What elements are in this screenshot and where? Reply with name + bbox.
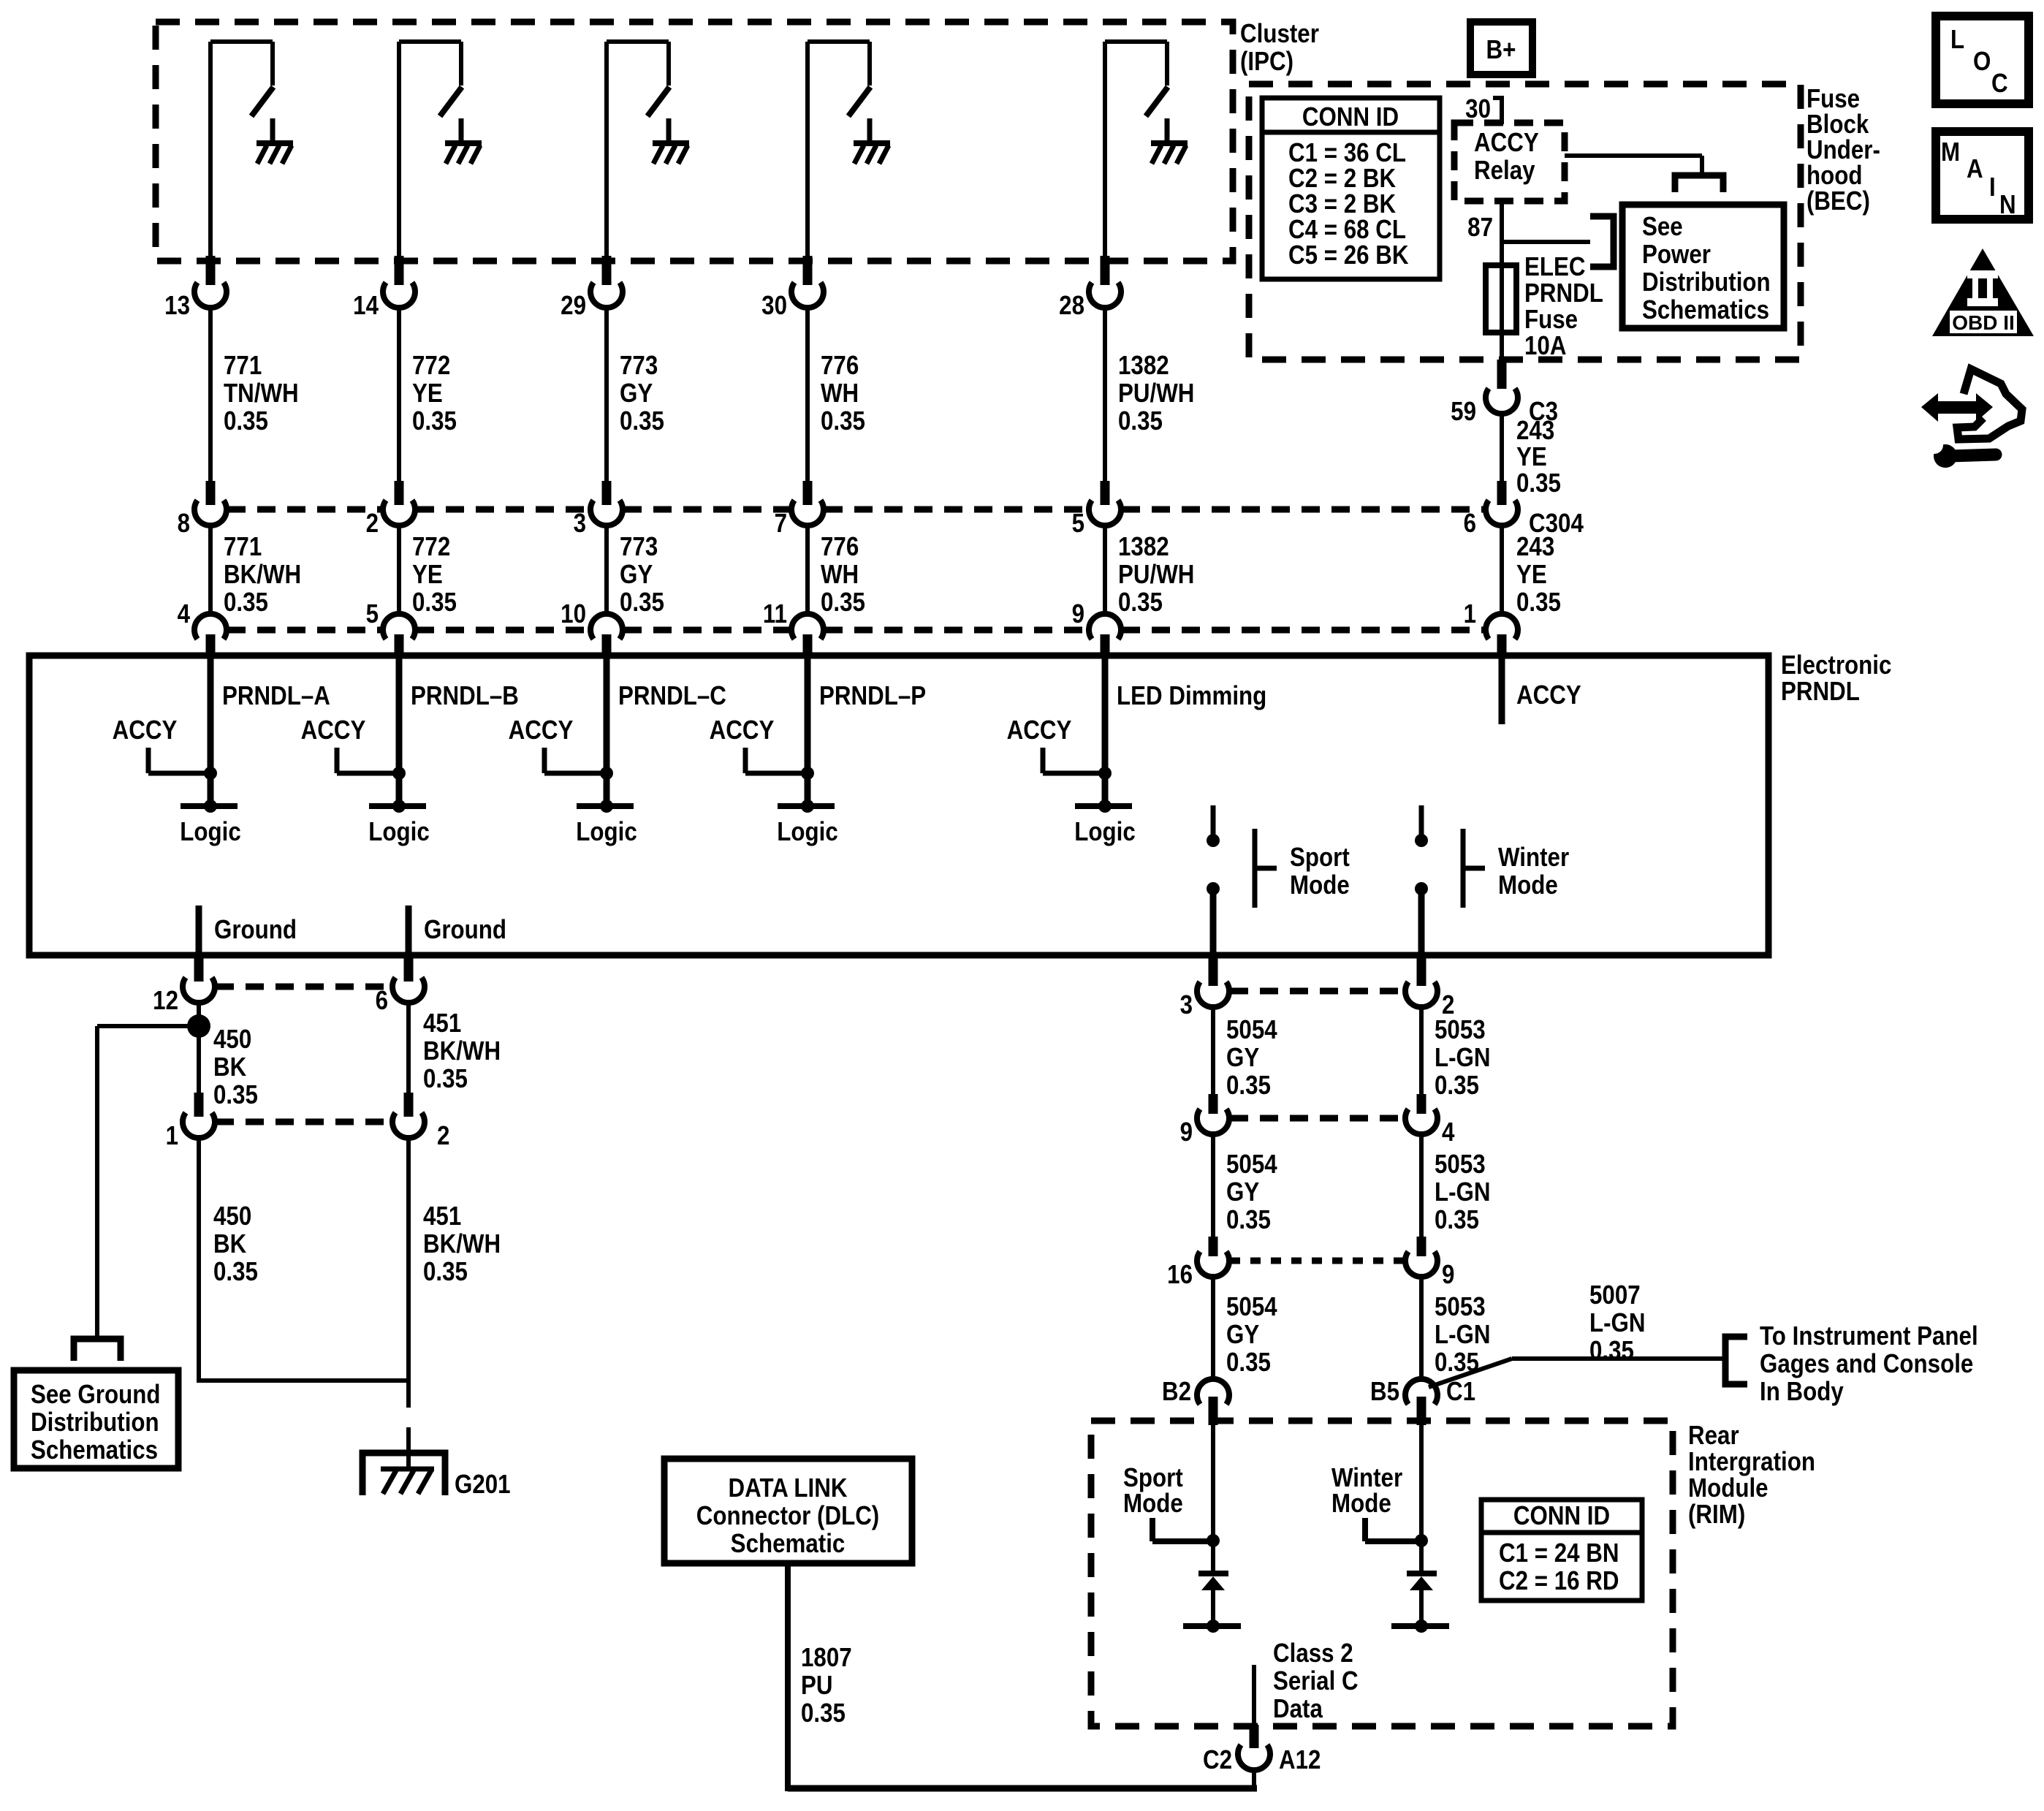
data link connector (DLC) schematic box — [664, 1459, 912, 1563]
svg-text:0.35: 0.35 — [224, 588, 268, 618]
connector pin 12 (ground) — [153, 957, 215, 1016]
input wire PRNDL–A inside module — [208, 656, 214, 806]
ground symbol for switch S4 — [854, 118, 890, 164]
svg-text:14: 14 — [353, 291, 379, 321]
input wire PRNDL–P inside module — [805, 656, 811, 806]
svg-text:N: N — [1999, 190, 2016, 220]
junction dot PRNDL–P/ACCY — [801, 767, 814, 780]
wire from ACCY relay to power distribution — [1565, 156, 1702, 175]
dashed connector line pins 1/2 — [216, 1119, 392, 1125]
svg-text:0.35: 0.35 — [821, 588, 865, 618]
svg-text:Serial C: Serial C — [1273, 1666, 1359, 1696]
svg-text:13: 13 — [164, 291, 190, 321]
icon LOC — [1936, 16, 2029, 104]
wire 5053 L-GN seg3 — [1419, 1274, 1424, 1380]
junction dot PRNDL–A/ACCY — [204, 767, 217, 780]
internal ACCY pull-up for PRNDL–C — [509, 715, 607, 773]
label LED Dimming — [1117, 681, 1266, 711]
svg-text:PU/WH: PU/WH — [1118, 560, 1194, 590]
svg-text:9: 9 — [1180, 1117, 1193, 1147]
fuse block underhood (BEC) dashed outline — [1249, 84, 1801, 360]
harness bracket to instrument panel — [1725, 1337, 1747, 1384]
svg-text:C2: C2 — [1203, 1745, 1232, 1775]
svg-text:C1 = 24 BN: C1 = 24 BN — [1499, 1538, 1619, 1568]
svg-text:0.35: 0.35 — [224, 406, 268, 436]
ground output wire 2 inside module — [409, 905, 506, 957]
connector pin 3 (sport) — [1180, 957, 1229, 1020]
svg-text:5053: 5053 — [1435, 1292, 1486, 1322]
svg-text:30: 30 — [761, 291, 787, 321]
svg-text:Mode: Mode — [1290, 870, 1350, 900]
wire 776 WH between connector rows — [805, 525, 810, 615]
winter mode switch contacts — [1415, 805, 1428, 957]
svg-text:Schematics: Schematics — [1642, 295, 1769, 325]
harness bracket into See Power box (left) — [1590, 216, 1614, 267]
svg-text:0.35: 0.35 — [1226, 1205, 1271, 1235]
svg-text:GY: GY — [620, 560, 653, 590]
svg-text:Cluster: Cluster — [1240, 19, 1319, 49]
svg-text:0.35: 0.35 — [1589, 1336, 1634, 1366]
svg-text:10A: 10A — [1524, 331, 1566, 361]
dashed connector line pins 9/4 — [1230, 1115, 1405, 1122]
connector pin 28 of IPC — [1059, 256, 1121, 321]
wire 451 BK/WH from pin 6 — [406, 1000, 411, 1095]
connector pin 9 (winter row3) — [1405, 1237, 1454, 1290]
svg-text:BK: BK — [213, 1052, 247, 1082]
svg-text:87: 87 — [1467, 213, 1493, 243]
switch S3 (PRNDL-C sense) in cluster — [607, 42, 669, 265]
svg-text:Logic: Logic — [1074, 817, 1135, 847]
svg-text:A12: A12 — [1279, 1745, 1321, 1775]
svg-text:30: 30 — [1465, 94, 1491, 124]
relay pin 30 lead — [1465, 94, 1502, 124]
svg-text:PU: PU — [801, 1671, 833, 1701]
connector pin 3 (in-line connector top) — [574, 481, 623, 539]
svg-text:ACCY: ACCY — [710, 715, 775, 745]
label wire 5007 L-GN 0.35 — [1589, 1280, 1646, 1366]
connector pin 9 (sport row2) — [1180, 1094, 1229, 1147]
svg-text:Winter: Winter — [1498, 843, 1569, 873]
label wire 5053 L-GN 0.35 (second) — [1435, 1150, 1491, 1235]
wire 5054 GY seg3 — [1211, 1274, 1215, 1380]
svg-text:0.35: 0.35 — [1435, 1205, 1479, 1235]
ground symbol for switch S3 — [653, 118, 689, 164]
svg-text:Mode: Mode — [1331, 1489, 1391, 1519]
wire B2 to diode — [1211, 1425, 1215, 1571]
svg-text:ACCY: ACCY — [1007, 715, 1072, 745]
instrument cluster (IPC) module dashed outline — [156, 22, 1233, 261]
svg-text:PRNDL–A: PRNDL–A — [222, 681, 330, 711]
svg-text:773: 773 — [620, 351, 658, 381]
label PRNDL–C — [618, 681, 726, 711]
wire 5053 L-GN seg1 — [1419, 1004, 1424, 1096]
svg-text:Data: Data — [1273, 1694, 1323, 1724]
connector pin B2 of RIM — [1162, 1377, 1229, 1425]
B+ power symbol — [1470, 22, 1532, 75]
svg-text:Schematics: Schematics — [31, 1435, 158, 1465]
label wire 1382 PU/WH 0.35 — [1118, 351, 1194, 436]
label wire 450 BK 0.35 (second) — [213, 1201, 258, 1287]
wire 771 BK/WH between connector rows — [208, 525, 213, 615]
label PRNDL–P — [819, 681, 926, 711]
label wire 771 BK/WH 0.35 (second) — [224, 532, 301, 618]
svg-text:6: 6 — [1464, 509, 1476, 539]
svg-text:O: O — [1973, 47, 1991, 77]
connector pin 7 (in-line connector top) — [775, 481, 824, 539]
label Fuse Block Underhood (BEC) — [1806, 84, 1880, 216]
svg-text:4: 4 — [1442, 1117, 1455, 1147]
svg-text:PRNDL–B: PRNDL–B — [411, 681, 519, 711]
svg-text:5007: 5007 — [1589, 1280, 1641, 1310]
ground lead at G201 — [406, 1427, 411, 1470]
wire 773 GY between connector rows — [604, 525, 609, 615]
svg-text:772: 772 — [412, 532, 450, 562]
svg-text:0.35: 0.35 — [423, 1064, 468, 1094]
connector pin 8 (in-line connector top) — [178, 481, 227, 539]
internal ACCY pull-up for LED Dimming — [1007, 715, 1105, 773]
svg-text:243: 243 — [1516, 416, 1554, 446]
switch S1 (PRNDL-A sense) in cluster — [210, 42, 273, 265]
connector pin 6 C304 — [1464, 481, 1584, 539]
svg-text:Ground: Ground — [214, 915, 297, 945]
svg-text:12: 12 — [153, 986, 178, 1016]
svg-text:5054: 5054 — [1226, 1292, 1277, 1322]
wire 243 YE from C3 to C304 — [1500, 411, 1504, 482]
svg-text:5: 5 — [366, 599, 379, 629]
svg-text:G201: G201 — [455, 1470, 511, 1500]
junction dot LED Dimming/ACCY — [1098, 767, 1112, 780]
svg-text:6: 6 — [376, 986, 388, 1016]
svg-text:2: 2 — [437, 1121, 449, 1151]
diode D1 (sport) — [1183, 1573, 1241, 1626]
svg-text:GY: GY — [1226, 1320, 1259, 1350]
svg-text:ACCY: ACCY — [509, 715, 574, 745]
connector pin 10 (in-line connector bottom) — [561, 599, 623, 657]
see power distribution schematics box — [1622, 205, 1784, 328]
svg-text:5054: 5054 — [1226, 1015, 1277, 1045]
svg-text:DATA LINK: DATA LINK — [729, 1473, 848, 1503]
svg-text:243: 243 — [1516, 532, 1554, 562]
svg-text:1: 1 — [166, 1121, 178, 1151]
junction dot winter input — [1415, 1534, 1428, 1547]
label wire 451 BK/WH 0.35 — [423, 1009, 501, 1094]
svg-text:0.35: 0.35 — [1516, 468, 1561, 498]
connector pin 2 (in-line connector top) — [366, 481, 415, 539]
svg-text:GY: GY — [620, 379, 653, 409]
svg-text:ACCY: ACCY — [113, 715, 178, 745]
svg-text:BK: BK — [213, 1229, 247, 1259]
label PRNDL–A — [222, 681, 330, 711]
wire 5054 GY seg2 — [1211, 1131, 1215, 1239]
sport mode switch actuator — [1255, 829, 1350, 908]
logic input symbol for PRNDL–B — [368, 800, 429, 847]
junction dot PRNDL–C/ACCY — [600, 767, 613, 780]
svg-text:Logic: Logic — [180, 817, 240, 847]
svg-text:C2 = 16 RD: C2 = 16 RD — [1499, 1566, 1619, 1596]
svg-text:Connector (DLC): Connector (DLC) — [696, 1501, 879, 1531]
ACCY input wire inside module — [1502, 656, 1581, 724]
svg-text:See Ground: See Ground — [31, 1380, 160, 1410]
svg-text:451: 451 — [423, 1009, 461, 1039]
class 2 serial data wire in RIM — [1254, 1639, 1359, 1725]
svg-text:To Instrument Panel: To Instrument Panel — [1760, 1321, 1978, 1351]
svg-text:771: 771 — [224, 351, 262, 381]
svg-text:5: 5 — [1072, 509, 1084, 539]
svg-text:BK/WH: BK/WH — [423, 1229, 501, 1259]
logic input symbol for PRNDL–A — [180, 800, 240, 847]
sport mode input label in RIM — [1123, 1463, 1213, 1541]
relay pin 87 lead and junction — [1467, 201, 1590, 265]
internal ACCY pull-up for PRNDL–A — [113, 715, 210, 773]
connector pin 5 (in-line connector bottom) — [366, 599, 415, 657]
svg-text:Power: Power — [1642, 240, 1711, 270]
connector pin 9 (in-line connector bottom) — [1072, 599, 1121, 657]
svg-text:L-GN: L-GN — [1435, 1320, 1491, 1350]
wire 450 BK from pin 12 — [197, 1000, 201, 1095]
svg-text:8: 8 — [178, 509, 190, 539]
connector pin 1 (ACCY into PRNDL) — [1464, 599, 1518, 657]
svg-text:776: 776 — [821, 351, 859, 381]
svg-text:WH: WH — [821, 379, 859, 409]
in-line connector dashed line (top row) — [227, 506, 1485, 513]
label wire 776 WH 0.35 — [821, 351, 865, 436]
svg-text:(IPC): (IPC) — [1240, 47, 1293, 77]
connector pin 5 (in-line connector top) — [1072, 481, 1121, 539]
switch S2 (PRNDL-B sense) in cluster — [399, 42, 462, 265]
ground G201 — [362, 1453, 511, 1500]
switch S5 (LED dimming sense) in cluster — [1105, 42, 1168, 265]
svg-text:0.35: 0.35 — [801, 1698, 846, 1728]
ground symbol for switch S5 — [1151, 118, 1188, 164]
svg-text:TN/WH: TN/WH — [224, 379, 299, 409]
svg-text:YE: YE — [412, 560, 443, 590]
svg-text:Logic: Logic — [777, 817, 837, 847]
ground output wire 1 inside module — [199, 905, 297, 957]
svg-text:C5 = 26 BK: C5 = 26 BK — [1288, 240, 1409, 270]
svg-text:PU/WH: PU/WH — [1118, 379, 1194, 409]
rear integration module (RIM) dashed outline — [1091, 1421, 1673, 1726]
connector pin 2 (451 BK/WH) — [392, 1093, 449, 1151]
logic input symbol for PRNDL–C — [576, 800, 637, 847]
svg-text:4: 4 — [178, 599, 191, 629]
svg-text:Sport: Sport — [1290, 843, 1350, 873]
svg-text:1382: 1382 — [1118, 532, 1169, 562]
svg-text:0.35: 0.35 — [1226, 1071, 1271, 1101]
svg-text:Class 2: Class 2 — [1273, 1639, 1353, 1668]
label Electronic PRNDL — [1781, 650, 1891, 707]
svg-text:C: C — [1991, 69, 2008, 99]
svg-text:771: 771 — [224, 532, 262, 562]
svg-text:Logic: Logic — [368, 817, 429, 847]
input wire PRNDL–B inside module — [396, 656, 403, 806]
svg-text:1807: 1807 — [801, 1643, 852, 1673]
svg-text:Gages and Console: Gages and Console — [1760, 1349, 1973, 1379]
svg-text:CONN ID: CONN ID — [1513, 1501, 1610, 1531]
svg-text:59: 59 — [1451, 397, 1476, 427]
svg-text:776: 776 — [821, 532, 859, 562]
label wire 773 GY 0.35 (second) — [620, 532, 664, 618]
CONN ID table (BEC) — [1262, 98, 1440, 279]
svg-text:0.35: 0.35 — [821, 406, 865, 436]
svg-text:7: 7 — [775, 509, 787, 539]
svg-text:ACCY: ACCY — [301, 715, 366, 745]
connector pin B5 C1 of RIM — [1370, 1377, 1475, 1425]
svg-text:0.35: 0.35 — [620, 588, 664, 618]
svg-text:L-GN: L-GN — [1589, 1308, 1646, 1338]
svg-text:PRNDL–C: PRNDL–C — [618, 681, 726, 711]
svg-text:LED Dimming: LED Dimming — [1117, 681, 1266, 711]
icon MAIN — [1936, 132, 2029, 220]
electronic PRNDL module box — [29, 656, 1768, 955]
svg-text:0.35: 0.35 — [213, 1080, 258, 1110]
svg-text:L-GN: L-GN — [1435, 1043, 1491, 1073]
wire 1382 PU/WH from IPC pin 28 to C304 — [1103, 305, 1107, 482]
svg-text:CONN ID: CONN ID — [1302, 102, 1399, 132]
svg-text:29: 29 — [561, 291, 586, 321]
label wire 451 BK/WH 0.35 (second) — [423, 1201, 501, 1287]
ground symbol for switch S1 — [257, 118, 293, 164]
svg-text:YE: YE — [1516, 442, 1547, 472]
connector pin 13 of IPC — [164, 256, 227, 321]
svg-text:3: 3 — [574, 509, 586, 539]
svg-text:OBD II: OBD II — [1952, 311, 2015, 334]
fuse ELEC PRNDL 10A — [1486, 252, 1603, 361]
svg-text:16: 16 — [1167, 1260, 1193, 1290]
svg-text:Fuse: Fuse — [1524, 305, 1578, 335]
svg-text:0.35: 0.35 — [412, 406, 457, 436]
label wire 5054 GY 0.35 — [1226, 1015, 1277, 1101]
dashed connector line pins 12/6 — [216, 984, 392, 990]
svg-text:0.35: 0.35 — [620, 406, 664, 436]
svg-text:451: 451 — [423, 1201, 461, 1231]
junction dot winter diode anode — [1415, 1620, 1428, 1633]
svg-text:0.35: 0.35 — [213, 1257, 258, 1287]
sport mode switch contacts — [1207, 805, 1220, 957]
wire 5007 L-GN to instrument panel — [1429, 1359, 1723, 1387]
svg-text:GY: GY — [1226, 1043, 1259, 1073]
svg-text:1382: 1382 — [1118, 351, 1169, 381]
connector pin 16 (sport row3) — [1167, 1237, 1229, 1290]
svg-text:Distribution: Distribution — [1642, 267, 1771, 297]
wire B5 to diode — [1419, 1425, 1424, 1571]
connector pin 59 C3 — [1451, 360, 1558, 427]
input wire PRNDL–C inside module — [604, 656, 610, 806]
svg-text:450: 450 — [213, 1201, 251, 1231]
svg-text:YE: YE — [412, 379, 443, 409]
svg-text:Mode: Mode — [1498, 870, 1558, 900]
svg-text:0.35: 0.35 — [412, 588, 457, 618]
svg-text:773: 773 — [620, 532, 658, 562]
svg-text:450: 450 — [213, 1025, 251, 1055]
label wire 1807 PU 0.35 — [801, 1643, 852, 1728]
svg-text:I: I — [1989, 172, 1996, 202]
connector pin 6 (ground) — [376, 957, 425, 1016]
svg-text:3: 3 — [1180, 990, 1193, 1020]
svg-text:In Body: In Body — [1760, 1377, 1844, 1407]
icon vehicle data / wrench — [1921, 369, 2022, 468]
wire 772 YE from IPC pin 14 to C304 — [397, 305, 401, 482]
wire 776 WH from IPC pin 30 to C304 — [805, 305, 810, 482]
svg-text:772: 772 — [412, 351, 450, 381]
svg-text:BK/WH: BK/WH — [224, 560, 301, 590]
svg-text:BK/WH: BK/WH — [423, 1036, 501, 1066]
connector pin 14 of IPC — [353, 256, 415, 321]
svg-text:Rear: Rear — [1688, 1421, 1739, 1451]
wire 450 BK to G201 — [197, 1135, 409, 1381]
label To Instrument Panel Gages and Console In Body — [1760, 1321, 1978, 1407]
svg-text:WH: WH — [821, 560, 859, 590]
label Cluster (IPC) — [1240, 19, 1319, 77]
svg-text:B2: B2 — [1162, 1377, 1191, 1407]
label wire 243 YE 0.35 (second) — [1516, 532, 1561, 618]
wire 243 YE between connector rows — [1500, 525, 1504, 615]
dashed connector line pins 3/2 — [1230, 988, 1405, 995]
harness bracket into See Power box (top) — [1675, 175, 1723, 192]
CONN ID table (RIM) — [1481, 1500, 1642, 1601]
svg-text:B5: B5 — [1370, 1377, 1399, 1407]
svg-text:0.35: 0.35 — [1226, 1348, 1271, 1378]
label wire 773 GY 0.35 — [620, 351, 664, 436]
connector pin 2 (winter) — [1405, 957, 1454, 1020]
label wire 5053 L-GN 0.35 (third) — [1435, 1292, 1491, 1378]
svg-text:A: A — [1967, 154, 1983, 184]
junction dot sport diode anode — [1207, 1620, 1220, 1633]
wire 773 GY from IPC pin 29 to C304 — [604, 305, 609, 482]
svg-text:Ground: Ground — [424, 915, 506, 945]
svg-text:0.35: 0.35 — [423, 1257, 468, 1287]
svg-text:5054: 5054 — [1226, 1150, 1277, 1180]
wire 771 TN/WH from IPC pin 13 to C304 — [208, 305, 213, 482]
internal ACCY pull-up for PRNDL–P — [710, 715, 808, 773]
svg-text:ACCY: ACCY — [1474, 128, 1539, 158]
label PRNDL–B — [411, 681, 519, 711]
logic input symbol for LED Dimming — [1074, 800, 1135, 847]
input wire LED Dimming inside module — [1102, 656, 1109, 806]
wire 451 BK/WH to G201 — [406, 1135, 411, 1408]
wire 450 BK branch to ground distribution — [97, 1026, 197, 1337]
svg-text:0.35: 0.35 — [1118, 406, 1163, 436]
diode D2 (winter) — [1391, 1573, 1449, 1626]
dashed connector line pins 16/9 — [1230, 1258, 1405, 1264]
label wire 1382 PU/WH 0.35 (second) — [1118, 532, 1194, 618]
label wire 772 YE 0.35 — [412, 351, 457, 436]
label wire 5053 L-GN 0.35 — [1435, 1015, 1491, 1101]
label wire 5054 GY 0.35 (third) — [1226, 1292, 1277, 1378]
svg-text:10: 10 — [561, 599, 586, 629]
label wire 243 YE 0.35 — [1516, 416, 1561, 498]
see ground distribution schematics box — [14, 1370, 178, 1468]
svg-text:Module: Module — [1688, 1473, 1768, 1503]
svg-text:11: 11 — [763, 599, 787, 629]
label wire 772 YE 0.35 (second) — [412, 532, 457, 618]
connector pin 30 of IPC — [761, 256, 824, 321]
connector pin C2 A12 — [1203, 1725, 1321, 1775]
wire 1382 PU/WH between connector rows — [1103, 525, 1107, 615]
svg-text:9: 9 — [1442, 1260, 1454, 1290]
winter mode switch actuator — [1463, 829, 1569, 908]
svg-text:PRNDL–P: PRNDL–P — [819, 681, 926, 711]
ground symbol for switch S2 — [445, 118, 482, 164]
svg-text:0.35: 0.35 — [1435, 1071, 1479, 1101]
svg-text:9: 9 — [1072, 599, 1084, 629]
connector pin 11 (in-line connector bottom) — [763, 599, 824, 657]
connector pin 29 of IPC — [561, 256, 623, 321]
junction dot PRNDL–B/ACCY — [392, 767, 406, 780]
label wire 5054 GY 0.35 (second) — [1226, 1150, 1277, 1235]
label Rear Intergration Module (RIM) — [1688, 1421, 1815, 1530]
ACCY relay dashed box — [1454, 123, 1565, 201]
wire 1807 PU to DLC — [788, 1769, 1257, 1788]
